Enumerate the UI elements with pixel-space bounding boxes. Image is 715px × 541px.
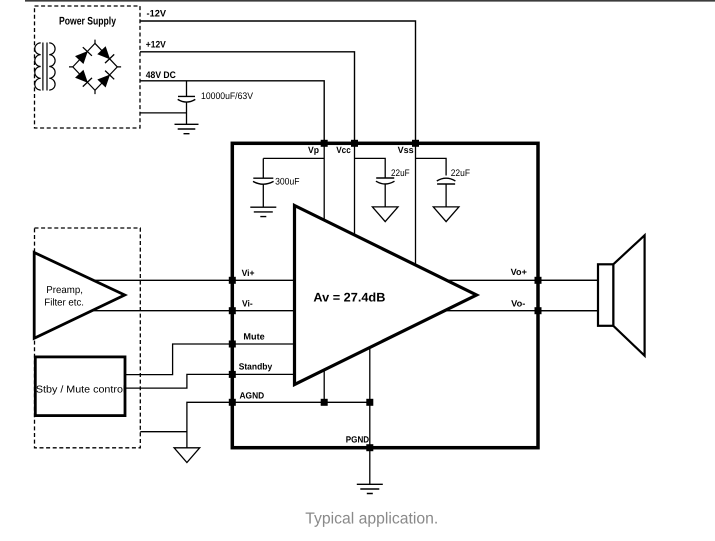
wire 300uF feed from Vp xyxy=(263,157,324,159)
wire Standby xyxy=(125,374,295,388)
wire Vo- xyxy=(444,310,598,312)
diode D3 (left-bottom edge) xyxy=(76,70,88,82)
wire Vss internal drop xyxy=(415,143,417,265)
ground (C1) xyxy=(175,124,199,133)
svg-text:Vo+: Vo+ xyxy=(511,267,527,277)
wire Vp stub to AGND rail xyxy=(323,370,325,402)
pin Vo+ xyxy=(535,277,542,284)
svg-text:22uF: 22uF xyxy=(391,168,410,179)
svg-text:48V DC: 48V DC xyxy=(146,70,176,81)
pin Vi- xyxy=(229,307,236,314)
pin Vp xyxy=(321,140,328,147)
op-amp U1 triangle xyxy=(295,206,477,385)
capacitor C3 22uF xyxy=(355,158,386,178)
svg-text:PGND: PGND xyxy=(346,434,370,444)
capacitor C1 10000uF/63V xyxy=(186,81,188,96)
wire Mute xyxy=(125,344,295,375)
ground (PGND) xyxy=(357,484,383,493)
pin PGND xyxy=(366,444,373,451)
wire Vi- xyxy=(90,310,294,312)
wire Vo+ xyxy=(442,279,599,281)
top rule xyxy=(25,0,715,2)
pin Vo- xyxy=(535,307,542,314)
wire return line power supply to C1 xyxy=(140,112,187,114)
svg-text:Vss: Vss xyxy=(398,145,414,155)
bridge corner stubs xyxy=(69,40,121,95)
svg-text:10000uF/63V: 10000uF/63V xyxy=(201,91,254,102)
power supply dashed box xyxy=(35,6,141,128)
pin Mute xyxy=(229,341,236,348)
ground (C2) xyxy=(250,207,276,216)
svg-text:Vp: Vp xyxy=(308,145,319,155)
signal ground (AGND) xyxy=(174,448,200,463)
preamp triangle xyxy=(34,253,125,339)
wire return to ground xyxy=(140,431,187,433)
wire internal node to PGND xyxy=(369,348,371,448)
svg-text:Filter etc.: Filter etc. xyxy=(44,298,84,309)
pin AGND xyxy=(229,399,236,406)
diode D1 (left-top edge) xyxy=(76,52,88,64)
wire PGND to ground xyxy=(369,449,371,485)
signal ground (C4) xyxy=(433,207,459,222)
wire AGND xyxy=(187,402,370,448)
svg-text:Vi+: Vi+ xyxy=(242,268,255,278)
amplifier block U1 xyxy=(232,143,538,447)
wire Vcc internal drop xyxy=(354,143,356,235)
transformer T1 core xyxy=(42,43,44,91)
svg-text:Stby / Mute control: Stby / Mute control xyxy=(36,385,125,396)
wire Vp internal drop xyxy=(323,143,325,220)
svg-text:AGND: AGND xyxy=(240,390,265,400)
wire Vi+ xyxy=(92,279,295,281)
bridge rectifier diamond xyxy=(73,43,118,90)
svg-text:Vi-: Vi- xyxy=(242,298,253,308)
pin Vi+ xyxy=(229,277,236,284)
capacitor C4 22uF xyxy=(416,158,447,175)
transformer T1 secondary winding xyxy=(49,43,55,90)
node junction on AGND rail at Vp xyxy=(321,399,328,406)
pin Vss xyxy=(412,140,419,147)
transformer T1 primary winding xyxy=(35,43,41,90)
svg-text:+12V: +12V xyxy=(146,39,167,50)
svg-text:Vcc: Vcc xyxy=(336,145,351,155)
pin Vcc xyxy=(351,140,358,147)
svg-text:Power Supply: Power Supply xyxy=(59,16,117,28)
svg-text:Preamp,: Preamp, xyxy=(46,285,83,296)
diode D4 (bottom-right edge) xyxy=(98,75,110,87)
wire 48V rail to Vp xyxy=(140,81,324,140)
svg-text:Av = 27.4dB: Av = 27.4dB xyxy=(313,291,385,305)
signal ground (C3) xyxy=(372,207,398,222)
preamp dashed box xyxy=(35,228,141,448)
capacitor C2 300uF xyxy=(262,158,264,178)
svg-text:300uF: 300uF xyxy=(275,177,300,188)
svg-text:Vo-: Vo- xyxy=(511,298,525,308)
svg-text:Standby: Standby xyxy=(239,362,273,372)
svg-text:Typical application.: Typical application. xyxy=(305,511,438,528)
svg-text:-12V: -12V xyxy=(147,9,167,20)
svg-text:22uF: 22uF xyxy=(451,168,470,179)
diode D2 (top-right edge) xyxy=(98,47,110,59)
pin Standby xyxy=(229,371,236,378)
svg-text:Mute: Mute xyxy=(243,332,264,342)
node junction on AGND rail at PGND column xyxy=(366,399,373,406)
speaker LS1 xyxy=(540,279,599,281)
wire -12V rail to Vss xyxy=(140,21,416,140)
wire +12V rail to Vcc xyxy=(140,52,355,140)
Stby / Mute control box xyxy=(35,357,125,416)
